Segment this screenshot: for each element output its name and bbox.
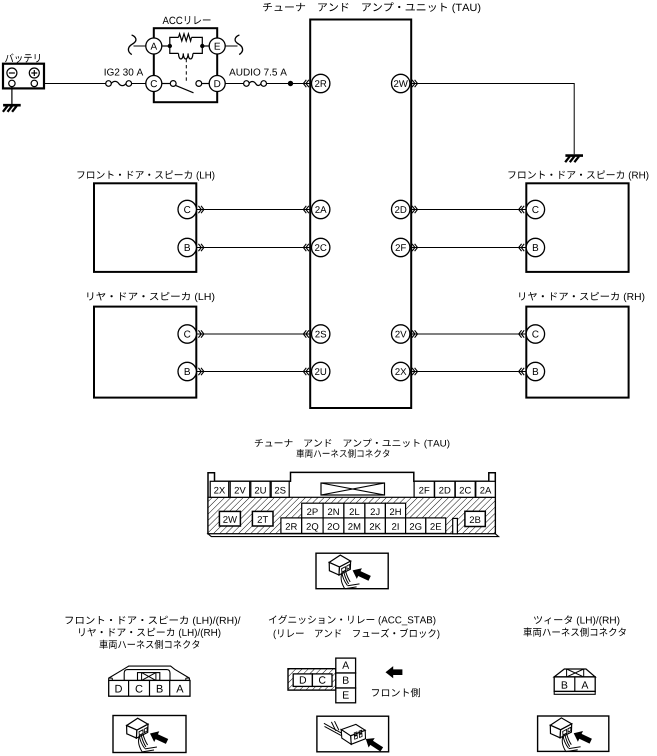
relay pin A	[146, 38, 162, 54]
wire switch to D	[202, 83, 210, 85]
shell keyway X-box	[138, 673, 160, 681]
wire junction to E	[202, 45, 209, 47]
wire TAU to RH speaker	[412, 371, 527, 373]
connector cavity 2F	[414, 481, 434, 497]
connector cavity 2T	[252, 511, 273, 526]
connector cavity 2Q	[302, 518, 323, 534]
connector cavity 2W	[219, 511, 240, 526]
relay ACC_STAB box	[154, 28, 217, 102]
ACC relay label	[163, 16, 211, 24]
connector chevrons TAU side	[303, 368, 309, 375]
relay connector hook right	[235, 35, 242, 55]
TAU pin 2S	[312, 325, 330, 343]
wire TAU to RH speaker	[412, 247, 527, 249]
connector cavity 2N	[323, 503, 344, 518]
relay RC parallel frame	[170, 37, 203, 53]
speaker pin B	[526, 362, 544, 380]
ground (TAU 2W)	[565, 156, 583, 163]
dashed actuator link	[185, 59, 187, 83]
relay pin D	[209, 76, 225, 92]
connector cavity 2B	[465, 511, 485, 526]
relay block cavity A	[336, 658, 356, 673]
connector cavity 2D	[435, 481, 455, 497]
TAU pin 2F	[392, 238, 410, 256]
tuner and amp unit TAU box	[310, 20, 411, 409]
battery terminal positive	[31, 80, 37, 86]
wire battery negative to ground	[11, 87, 13, 105]
relay block hatched body	[288, 669, 336, 690]
relay block cavity C	[312, 674, 332, 687]
inductor coil (relay)	[179, 53, 193, 59]
relay block cavity E	[336, 688, 356, 703]
fuse IG2 30 A	[106, 81, 132, 87]
wire LH speaker to TAU	[196, 209, 311, 211]
speaker label	[87, 292, 214, 302]
relay pin E	[209, 38, 225, 54]
connector cavity 2U	[251, 481, 270, 497]
connector cavity 2J	[365, 503, 386, 518]
fuse IG2 30 A label	[105, 69, 144, 76]
tweeter cavities B A	[554, 677, 595, 692]
speaker connector orientation icon	[127, 718, 169, 752]
wire LH speaker to TAU	[196, 247, 311, 249]
connector chevrons speaker side	[519, 330, 525, 337]
connector chevrons speaker side	[198, 330, 204, 337]
tweeter connector lip	[554, 691, 595, 694]
connector cavity 2C	[455, 481, 475, 497]
speaker label	[508, 170, 648, 180]
TAU connector orientation icon frame	[316, 553, 388, 589]
tweeter keyway box	[567, 669, 584, 677]
junction splice dot	[288, 81, 293, 86]
TAU pin 2R	[312, 74, 330, 92]
speaker pin B	[178, 362, 196, 380]
speaker box	[94, 307, 196, 398]
TAU pin 2W	[392, 74, 410, 92]
relay pin C	[146, 76, 162, 92]
connector chevrons speaker side	[519, 244, 525, 251]
wire LH speaker to TAU	[196, 333, 311, 335]
battery terminal negative	[9, 80, 15, 86]
connector keyway X-box	[321, 483, 385, 495]
speaker label	[77, 170, 214, 180]
wire LH speaker to TAU	[196, 371, 311, 373]
connector chevrons speaker side	[519, 206, 525, 213]
battery B1	[3, 64, 44, 89]
fuse AUDIO 7.5 A	[244, 81, 267, 87]
wire IG2 fuse to relay pin C	[132, 83, 147, 85]
ignition relay label line2	[274, 628, 440, 639]
connector chevrons speaker side	[519, 368, 525, 375]
speaker connector label line3	[99, 640, 199, 649]
switch contact right	[196, 81, 202, 87]
front-side arrow	[386, 666, 403, 678]
connector chevrons TAU side	[412, 206, 418, 213]
relay coil junction dot right	[200, 44, 204, 48]
tweeter keyway cross	[567, 669, 584, 677]
wire TAU to RH speaker	[412, 209, 527, 211]
keyway cross	[142, 673, 156, 681]
speaker box	[526, 307, 628, 398]
speaker connector cavities D C B A	[109, 680, 190, 696]
TAU connector bottom lip	[208, 534, 499, 537]
connector chevrons TAU side	[303, 330, 309, 337]
connector cavity 2L	[344, 503, 365, 518]
connector blank slot	[453, 518, 458, 533]
speaker connector icon frame	[113, 716, 186, 753]
wire A to junction	[162, 45, 170, 47]
speaker label	[519, 292, 644, 302]
relay block icon frame	[317, 716, 389, 752]
wire TAU to RH speaker	[412, 333, 527, 335]
connector chevrons at 2W	[412, 80, 418, 87]
TAU pin 2X	[392, 362, 410, 380]
connector cavity 2K	[365, 518, 386, 534]
wire C to switch	[162, 83, 171, 85]
connector cavity 2A	[476, 481, 496, 497]
connector cavity 2I	[385, 518, 405, 534]
connector cavity 2G	[406, 518, 426, 534]
ground (battery)	[3, 105, 21, 112]
connector chevrons at 2R	[303, 80, 309, 87]
connector cavity 2R	[281, 518, 302, 534]
connector chevrons TAU side	[412, 368, 418, 375]
connector cavity 2P	[302, 503, 323, 518]
keyway cross lines	[321, 483, 385, 495]
wire AUDIO fuse to TAU pin 2R	[267, 83, 312, 85]
relay block cavity D	[293, 674, 312, 687]
TAU pin 2U	[312, 362, 330, 380]
connector chevrons speaker side	[198, 244, 204, 251]
front side label	[372, 688, 420, 697]
wire TAU pin 2W to ground	[410, 84, 575, 155]
connector chevrons TAU side	[303, 244, 309, 251]
speaker box	[94, 183, 196, 272]
speaker connector label line1	[66, 616, 241, 626]
TAU pin 2V	[392, 325, 410, 343]
speaker connector shell outer	[109, 666, 190, 680]
tweeter label line1	[534, 615, 619, 625]
shell tabs	[109, 677, 113, 679]
connector cavity 2S	[271, 481, 289, 497]
TAU title	[263, 2, 480, 13]
TAU pin 2D	[392, 200, 410, 218]
speaker box	[526, 183, 628, 272]
speaker pin B	[526, 238, 544, 256]
wire relay pin D to AUDIO fuse	[225, 83, 243, 85]
resistor (relay)	[179, 34, 192, 41]
speaker pin C	[178, 200, 196, 218]
TAU pin 2C	[312, 238, 330, 256]
tweeter orientation icon	[550, 718, 592, 752]
TAU connector title line 1	[255, 439, 450, 449]
TAU connector hatched face	[208, 497, 495, 534]
speaker connector label line2	[79, 628, 220, 638]
TAU connector title line 2	[296, 449, 389, 458]
relay connector hook left	[128, 35, 135, 55]
battery label	[5, 53, 40, 62]
connector cavity 2M	[344, 518, 365, 534]
connector cavity 2H	[385, 503, 405, 518]
speaker pin C	[526, 325, 544, 343]
connector cavity 2V	[230, 481, 250, 497]
TAU vehicle harness connector body	[208, 472, 495, 533]
speaker pin C	[526, 200, 544, 218]
connector cavity 2O	[323, 518, 344, 534]
speaker pin C	[178, 325, 196, 343]
connector chevrons TAU side	[412, 330, 418, 337]
tweeter connector roof	[554, 669, 595, 677]
connector chevrons TAU side	[412, 244, 418, 251]
switch contact left	[170, 81, 176, 87]
tweeter icon frame	[538, 716, 609, 751]
relay coil junction dot left	[168, 44, 172, 48]
wire hook to relay pin A	[134, 45, 146, 47]
relay block cavity B	[336, 673, 356, 688]
tweeter label line2	[524, 627, 626, 636]
connector chevrons TAU side	[303, 206, 309, 213]
connector cavity 2X	[210, 481, 229, 497]
connector chevrons speaker side	[198, 206, 204, 213]
TAU pin 2A	[312, 200, 330, 218]
TAU connector orientation icon	[329, 555, 371, 589]
wire relay pin E to hook	[225, 45, 237, 47]
shell center ridge	[124, 670, 170, 681]
connector cavity 2E	[426, 518, 446, 534]
speaker pin B	[178, 238, 196, 256]
ignition relay label line1	[269, 615, 436, 625]
fuse AUDIO 7.5 A label	[229, 69, 287, 76]
relay block orientation icon	[324, 721, 383, 751]
connector chevrons speaker side	[198, 368, 204, 375]
wire battery to IG2 fuse	[38, 83, 106, 85]
switch blade	[175, 85, 194, 93]
